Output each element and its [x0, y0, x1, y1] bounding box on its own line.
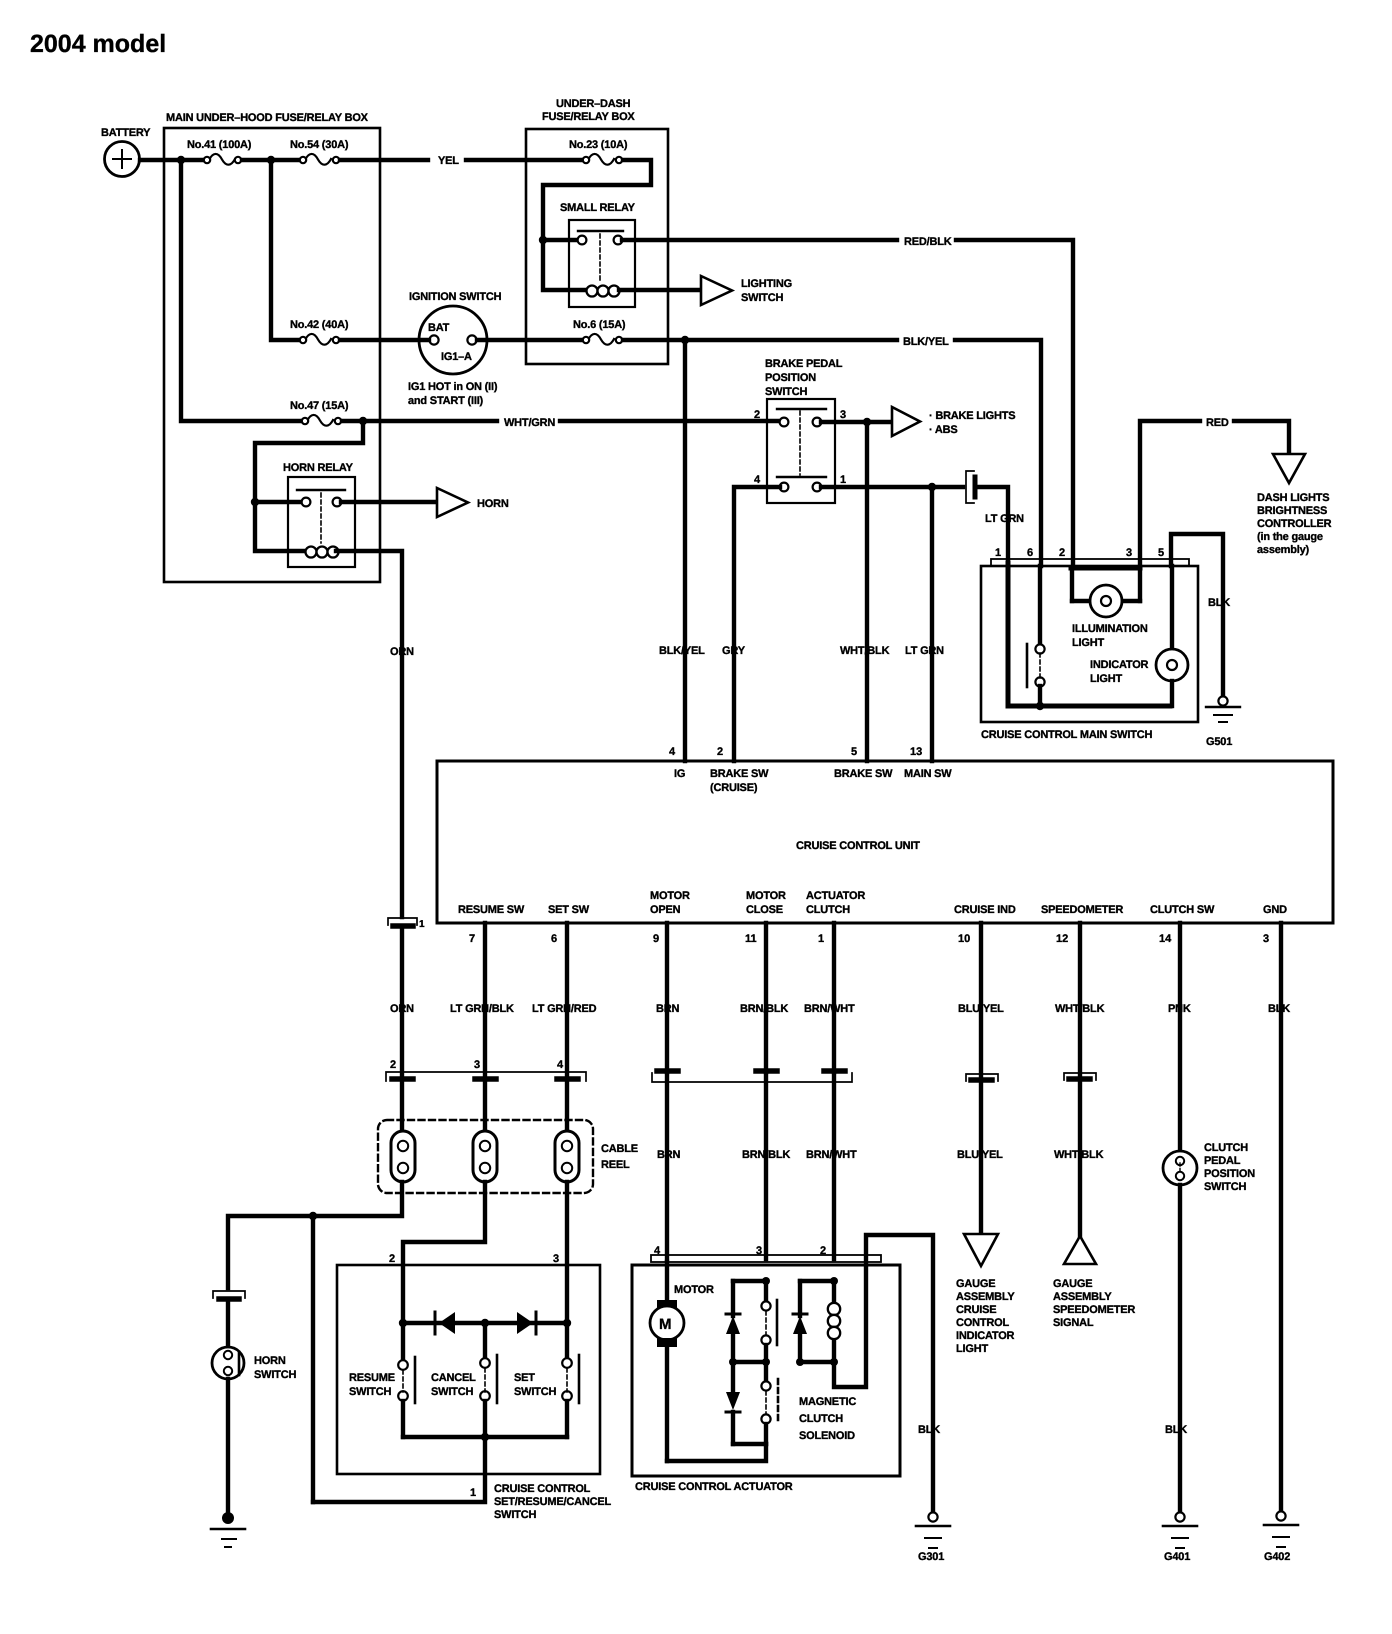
svg-text:SOLENOID: SOLENOID [799, 1430, 855, 1442]
svg-text:BAT: BAT [428, 322, 450, 334]
svg-text:ACTUATOR: ACTUATOR [806, 890, 865, 902]
wire gnd pin 3 down to G402 [1279, 923, 1283, 1512]
diode row [403, 1321, 567, 1325]
svg-text:BRAKE SW: BRAKE SW [710, 768, 769, 780]
fuse No.54 (30A) [290, 139, 349, 165]
magnetic clutch solenoid [799, 1396, 856, 1442]
connector BLU/YEL inline [966, 1074, 998, 1081]
wire cable reel right to switch pin 3 [565, 1182, 569, 1323]
svg-text:ORN: ORN [390, 1003, 414, 1015]
svg-text:5: 5 [851, 746, 857, 758]
dash lights brightness controller [1257, 454, 1332, 556]
svg-text:ORN: ORN [390, 646, 414, 658]
svg-text:OPEN: OPEN [650, 904, 681, 916]
cable reel terminal middle [473, 1131, 497, 1182]
node diode right junction [563, 1319, 571, 1327]
wire actuator clutch connector down [832, 1074, 836, 1259]
wire brake pin4 down to unit pin 2 [734, 487, 780, 761]
diode right (cancel to set) [517, 1312, 536, 1334]
node diode left junction [399, 1319, 407, 1327]
node horn relay feed junction [251, 498, 259, 506]
wire set sw pin 6 down [565, 923, 569, 1076]
svg-text:SWITCH: SWITCH [349, 1386, 391, 1398]
svg-text:BRIGHTNESS: BRIGHTNESS [1257, 505, 1327, 517]
node battery feed junction [177, 156, 185, 164]
svg-text:BRN: BRN [656, 1003, 679, 1015]
cruise control set/resume/cancel switch box [337, 1265, 611, 1521]
svg-text:GND: GND [1263, 904, 1287, 916]
diode left (cancel to resume) [435, 1312, 455, 1334]
svg-text:· ABS: · ABS [929, 424, 958, 436]
wire YEL [340, 158, 428, 162]
wire switch pin 1 return [313, 1437, 485, 1502]
svg-text:RED/BLK: RED/BLK [904, 236, 952, 248]
motor [650, 1262, 714, 1461]
illumination light [1071, 568, 1148, 649]
wire RED/BLK from relay contact [622, 238, 897, 242]
svg-text:3: 3 [474, 1059, 480, 1071]
svg-text:RESUME SW: RESUME SW [458, 904, 525, 916]
wire speedometer pin 12 down [1078, 923, 1082, 1077]
svg-text:FUSE/RELAY BOX: FUSE/RELAY BOX [542, 111, 635, 123]
fuse No.6 (15A) [573, 319, 626, 345]
svg-text:INDICATOR: INDICATOR [1090, 659, 1149, 671]
svg-text:1: 1 [840, 474, 846, 486]
svg-text:12: 12 [1056, 933, 1068, 945]
svg-text:4: 4 [557, 1059, 564, 1071]
svg-text:2: 2 [754, 409, 760, 421]
svg-text:WHT/BLK: WHT/BLK [840, 645, 890, 657]
svg-text:2: 2 [389, 1253, 395, 1265]
node junction No.54/No.42 [267, 156, 275, 164]
svg-text:GAUGE: GAUGE [1053, 1278, 1092, 1290]
svg-text:IGNITION SWITCH: IGNITION SWITCH [409, 291, 502, 303]
svg-text:SWITCH: SWITCH [494, 1509, 536, 1521]
gauge assembly speedometer [1053, 1236, 1135, 1329]
svg-text:LIGHT: LIGHT [1072, 637, 1104, 649]
svg-text:BRN/WHT: BRN/WHT [806, 1149, 857, 1161]
svg-text:SWITCH: SWITCH [1204, 1181, 1246, 1193]
wire junction down to No.42 [271, 160, 302, 340]
connector row cable reel side [386, 1059, 586, 1081]
svg-text:LT GRN: LT GRN [905, 645, 944, 657]
svg-text:MAGNETIC: MAGNETIC [799, 1396, 856, 1408]
svg-text:1: 1 [470, 1487, 476, 1499]
svg-text:HORN: HORN [477, 498, 509, 510]
wire motor open connector down [665, 1074, 669, 1259]
ground horn switch [211, 1512, 245, 1547]
fuse No.41 (100A) [187, 139, 252, 165]
brake lights arrow [892, 407, 1015, 436]
node diode mid junction [481, 1319, 489, 1327]
wire main switch bottom [1008, 563, 1170, 706]
connector WHT/BLK inline [1064, 1073, 1096, 1080]
svg-text:6: 6 [1027, 547, 1033, 559]
wire mid junction row [733, 1360, 766, 1364]
wire cable reel middle to switch pin 2 [403, 1182, 485, 1323]
svg-text:LIGHTING: LIGHTING [741, 278, 792, 290]
wire resume sw pin 7 down [483, 923, 487, 1076]
node horn/switch return junction [309, 1212, 317, 1220]
svg-text:WHT/BLK: WHT/BLK [1054, 1149, 1104, 1161]
svg-text:14: 14 [1159, 933, 1172, 945]
main switch contact [1027, 566, 1045, 706]
svg-text:SET: SET [514, 1372, 535, 1384]
svg-text:7: 7 [469, 933, 475, 945]
svg-text:CRUISE: CRUISE [956, 1304, 996, 1316]
svg-text:REEL: REEL [601, 1159, 630, 1171]
indicator light [1090, 566, 1188, 706]
svg-text:No.54 (30A): No.54 (30A) [290, 139, 349, 151]
contact motor close upper [761, 1281, 777, 1362]
node branch junction pin3 [762, 1277, 770, 1285]
svg-text:GAUGE: GAUGE [956, 1278, 995, 1290]
wire fuse41 to junction [242, 158, 302, 162]
svg-text:IG1–A: IG1–A [441, 351, 472, 363]
wire cruise ind pin 10 down [979, 923, 983, 1078]
svg-text:UNDER–DASH: UNDER–DASH [556, 98, 631, 110]
svg-text:CONTROLLER: CONTROLLER [1257, 518, 1332, 530]
wire ORN connector to cable reel [400, 929, 404, 1133]
svg-text:BLU/YEL: BLU/YEL [958, 1003, 1004, 1015]
svg-text:ASSEMBLY: ASSEMBLY [1053, 1291, 1112, 1303]
wire clutch sw pin 14 down to switch [1178, 923, 1182, 1152]
svg-text:3: 3 [553, 1253, 559, 1265]
svg-text:6: 6 [551, 933, 557, 945]
svg-text:CRUISE CONTROL ACTUATOR: CRUISE CONTROL ACTUATOR [635, 1481, 793, 1493]
brake pedal position switch [754, 358, 846, 503]
under-dash fuse/relay box [526, 98, 668, 364]
connector horn switch inline [213, 1291, 245, 1299]
svg-text:BLU/YEL: BLU/YEL [957, 1149, 1003, 1161]
ground G301 [916, 1512, 950, 1563]
svg-text:BLK: BLK [1165, 1424, 1187, 1436]
svg-text:BLK/YEL: BLK/YEL [903, 336, 949, 348]
wire ORN horn relay coil down [336, 551, 402, 917]
node IG drop junction [681, 336, 689, 344]
connector row motor group [652, 1071, 852, 1082]
svg-text:LT GRN/RED: LT GRN/RED [532, 1003, 597, 1015]
svg-text:BLK: BLK [918, 1424, 940, 1436]
horn relay [283, 462, 355, 567]
horn switch [212, 1302, 296, 1381]
wire actuator clutch branch top [800, 1279, 834, 1283]
svg-text:G301: G301 [918, 1551, 944, 1563]
wire fuse42 to ignition BAT [340, 338, 429, 342]
wire horn relay contact to HORN [341, 500, 437, 504]
svg-text:BLK/YEL: BLK/YEL [659, 645, 705, 657]
cable reel [378, 1120, 638, 1193]
wire actuator clutch pin 1 down [832, 923, 836, 1072]
svg-text:5: 5 [1158, 547, 1164, 559]
small relay [560, 202, 636, 307]
lighting switch [701, 276, 792, 305]
svg-text:BLK: BLK [1208, 597, 1230, 609]
cable reel terminal right [555, 1131, 579, 1182]
cruise control actuator [632, 1245, 900, 1493]
svg-text:BLK: BLK [1268, 1003, 1290, 1015]
svg-text:No.47 (15A): No.47 (15A) [290, 400, 349, 412]
svg-text:SMALL RELAY: SMALL RELAY [560, 202, 636, 214]
svg-text:BRN/BLK: BRN/BLK [742, 1149, 790, 1161]
wire ignition IG1 to fuse No.6 [477, 338, 583, 342]
svg-text:CLUTCH: CLUTCH [806, 904, 850, 916]
svg-text:LT GRN: LT GRN [985, 513, 1024, 525]
set switch [514, 1323, 579, 1437]
svg-text:2004 model: 2004 model [30, 30, 166, 58]
svg-text:BATTERY: BATTERY [101, 127, 151, 139]
svg-text:CABLE: CABLE [601, 1143, 638, 1155]
node main switch bottom junction [1036, 702, 1044, 710]
wire motor open pin 9 down [665, 923, 669, 1072]
wire junction down to switch return [311, 1216, 315, 1502]
svg-text:No.41 (100A): No.41 (100A) [187, 139, 252, 151]
svg-text:1: 1 [995, 547, 1001, 559]
svg-text:POSITION: POSITION [1204, 1168, 1255, 1180]
wire brake pin1 to LT GRN connector [821, 485, 963, 489]
svg-text:CLUTCH SW: CLUTCH SW [1150, 904, 1215, 916]
svg-text:3: 3 [1263, 933, 1269, 945]
wire battery junction down to No.47 [181, 160, 304, 421]
svg-text:ILLUMINATION: ILLUMINATION [1072, 623, 1148, 635]
wire small relay coil to lighting switch [619, 288, 701, 292]
svg-text:CRUISE CONTROL: CRUISE CONTROL [494, 1483, 591, 1495]
svg-text:LT GRN/BLK: LT GRN/BLK [450, 1003, 514, 1015]
svg-text:CLUTCH: CLUTCH [799, 1413, 843, 1425]
svg-text:No.42 (40A): No.42 (40A) [290, 319, 349, 331]
svg-text:HORN: HORN [254, 1355, 286, 1367]
svg-text:CRUISE IND: CRUISE IND [954, 904, 1016, 916]
node solenoid bottom right [830, 1358, 838, 1366]
svg-text:PNK: PNK [1168, 1003, 1191, 1015]
svg-text:4: 4 [669, 746, 676, 758]
svg-text:RED: RED [1206, 417, 1229, 429]
svg-text:MAIN SW: MAIN SW [904, 768, 952, 780]
clutch pedal position switch [1163, 1142, 1255, 1193]
svg-text:BRAKE SW: BRAKE SW [834, 768, 893, 780]
cruise control unit [437, 761, 1333, 923]
fuse No.23 (10A) [569, 139, 628, 165]
gauge assembly cruise indicator [956, 1234, 1015, 1355]
svg-text:LIGHT: LIGHT [956, 1343, 988, 1355]
node main sw drop junction [928, 483, 936, 491]
main under-hood fuse/relay box [164, 112, 380, 582]
wire motor bottom [667, 1444, 766, 1461]
svg-text:SWITCH: SWITCH [431, 1386, 473, 1398]
svg-text:CRUISE CONTROL UNIT: CRUISE CONTROL UNIT [796, 840, 920, 852]
svg-text:PEDAL: PEDAL [1204, 1155, 1241, 1167]
wire motor close connector down [764, 1074, 768, 1259]
svg-text:SPEEDOMETER: SPEEDOMETER [1041, 904, 1123, 916]
svg-text:No.23 (10A): No.23 (10A) [569, 139, 628, 151]
node WHT/GRN junction [359, 417, 367, 425]
svg-text:MOTOR: MOTOR [674, 1284, 714, 1296]
svg-text:2: 2 [390, 1059, 396, 1071]
svg-text:1: 1 [419, 919, 425, 930]
wire BLK/YEL [623, 338, 897, 342]
svg-text:LIGHT: LIGHT [1090, 673, 1122, 685]
wire brake sw junction down to unit pin 5 [865, 422, 869, 761]
node small relay feed junction [539, 236, 547, 244]
wire WHT/GRN to brake switch [342, 419, 497, 423]
wire WHT/BLK connector down [1078, 1082, 1082, 1236]
svg-text:2: 2 [1059, 547, 1065, 559]
wire BLU/YEL connector down [979, 1083, 983, 1234]
wire IG drop to unit pin 4 [683, 340, 687, 761]
wire motor close branch top [733, 1279, 766, 1283]
svg-text:CLOSE: CLOSE [746, 904, 783, 916]
connector ORN inline [388, 918, 425, 930]
wire colour labels row 2 [657, 1149, 1104, 1161]
diode solenoid [793, 1281, 807, 1362]
wire fuse23 to small relay feed [543, 160, 651, 290]
svg-text:WHT/BLK: WHT/BLK [1055, 1003, 1105, 1015]
diode motor close upper [726, 1281, 740, 1362]
svg-text:BRN: BRN [657, 1149, 680, 1161]
wire junction to relay contact [543, 238, 581, 242]
wire No.47 junction down to horn relay [255, 421, 363, 502]
node switch common junction [481, 1433, 489, 1441]
wire solenoid bottom junction row [800, 1360, 834, 1364]
svg-text:G402: G402 [1264, 1551, 1290, 1563]
svg-text:MOTOR: MOTOR [746, 890, 786, 902]
resume switch [349, 1323, 415, 1437]
connector LT GRN inline [966, 471, 975, 503]
wire switch common bottom [403, 1435, 567, 1439]
svg-text:CANCEL: CANCEL [431, 1372, 476, 1384]
svg-text:SPEEDOMETER: SPEEDOMETER [1053, 1304, 1135, 1316]
node mid right [762, 1358, 770, 1366]
horn symbol [437, 488, 509, 517]
ignition switch [408, 291, 502, 407]
wire motor close pin 11 down [764, 923, 768, 1072]
svg-text:10: 10 [958, 933, 970, 945]
wire cable reel left to horn switch [228, 1182, 402, 1288]
svg-text:ASSEMBLY: ASSEMBLY [956, 1291, 1015, 1303]
svg-text:IG1 HOT in ON (II): IG1 HOT in ON (II) [408, 381, 498, 393]
ground G402 [1264, 1511, 1298, 1563]
unit bottom pin labels [458, 890, 1287, 945]
wire RED main switch pin 3 up [1140, 421, 1200, 568]
svg-text:GRY: GRY [722, 645, 746, 657]
wire brake pin3 to brake lights [821, 420, 892, 424]
unit top pin numbers [669, 746, 952, 794]
wire set connector to cable reel [565, 1082, 569, 1133]
svg-text:G501: G501 [1206, 736, 1232, 748]
node brake lights junction [863, 418, 871, 426]
svg-text:1: 1 [818, 933, 824, 945]
ground G401 [1163, 1512, 1197, 1563]
svg-text:assembly): assembly) [1257, 544, 1310, 556]
wire junction to relay contact [255, 500, 305, 504]
svg-text:MOTOR: MOTOR [650, 890, 690, 902]
svg-text:SWITCH: SWITCH [254, 1369, 296, 1381]
node mid left [729, 1358, 737, 1366]
wire horn switch to ground [226, 1379, 230, 1518]
svg-text:BRN/WHT: BRN/WHT [804, 1003, 855, 1015]
node solenoid top junction [830, 1277, 838, 1285]
svg-text:SWITCH: SWITCH [741, 292, 783, 304]
svg-text:SWITCH: SWITCH [514, 1386, 556, 1398]
svg-text:MAIN UNDER–HOOD FUSE/RELAY BOX: MAIN UNDER–HOOD FUSE/RELAY BOX [166, 112, 369, 124]
svg-text:SIGNAL: SIGNAL [1053, 1317, 1094, 1329]
svg-text:POSITION: POSITION [765, 372, 816, 384]
wire solenoid out to BLK [834, 1235, 933, 1513]
svg-text:13: 13 [910, 746, 922, 758]
wire battery to fuse box [140, 158, 206, 162]
coil solenoid [828, 1281, 840, 1362]
svg-text:G401: G401 [1164, 1551, 1190, 1563]
svg-text:CLUTCH: CLUTCH [1204, 1142, 1248, 1154]
svg-text:CRUISE CONTROL MAIN SWITCH: CRUISE CONTROL MAIN SWITCH [981, 729, 1152, 741]
svg-text:YEL: YEL [438, 155, 459, 167]
svg-text:3: 3 [1126, 547, 1132, 559]
svg-text:BRN/BLK: BRN/BLK [740, 1003, 788, 1015]
svg-text:SET SW: SET SW [548, 904, 590, 916]
svg-text:BRAKE PEDAL: BRAKE PEDAL [765, 358, 843, 370]
svg-text:(in the gauge: (in the gauge [1257, 531, 1323, 543]
wire connector to main switch pin 1 [978, 487, 1008, 566]
wire junction to relay coil [255, 502, 303, 551]
cruise control main switch [981, 547, 1198, 741]
ground G501 [1206, 696, 1240, 748]
diode motor close lower [726, 1362, 740, 1444]
wire clutch switch to G401 [1178, 1185, 1182, 1512]
cable reel terminal left [391, 1131, 415, 1182]
svg-text:DASH LIGHTS: DASH LIGHTS [1257, 492, 1329, 504]
cancel switch [431, 1323, 497, 1437]
svg-text:(CRUISE): (CRUISE) [710, 782, 758, 794]
svg-text:11: 11 [745, 933, 757, 945]
svg-text:SWITCH: SWITCH [765, 386, 807, 398]
node solenoid bottom left [796, 1358, 804, 1366]
svg-text:SET/RESUME/CANCEL: SET/RESUME/CANCEL [494, 1496, 611, 1508]
wire lower junction row [733, 1442, 766, 1446]
fuse No.42 (40A) [290, 319, 349, 345]
contact motor close lower [761, 1362, 778, 1444]
svg-text:CONTROL: CONTROL [956, 1317, 1009, 1329]
svg-text:M: M [659, 1316, 672, 1333]
wire resume connector to cable reel [483, 1082, 487, 1133]
svg-text:3: 3 [840, 409, 846, 421]
svg-text:HORN RELAY: HORN RELAY [283, 462, 354, 474]
svg-text:· BRAKE LIGHTS: · BRAKE LIGHTS [929, 410, 1015, 422]
wire colour labels row 1 [390, 1003, 1290, 1015]
svg-text:No.6 (15A): No.6 (15A) [573, 319, 626, 331]
battery [101, 127, 151, 177]
svg-text:9: 9 [653, 933, 659, 945]
wire main sw drop down to unit pin 13 [930, 487, 934, 761]
svg-text:2: 2 [717, 746, 723, 758]
svg-text:IG: IG [674, 768, 685, 780]
fuse No.47 (15A) [290, 400, 349, 426]
svg-text:INDICATOR: INDICATOR [956, 1330, 1015, 1342]
svg-text:4: 4 [754, 474, 761, 486]
wire BLK main switch pin 5 to G501 [1171, 534, 1223, 696]
svg-text:WHT/GRN: WHT/GRN [504, 417, 555, 429]
svg-text:RESUME: RESUME [349, 1372, 395, 1384]
svg-text:and START (III): and START (III) [408, 395, 484, 407]
